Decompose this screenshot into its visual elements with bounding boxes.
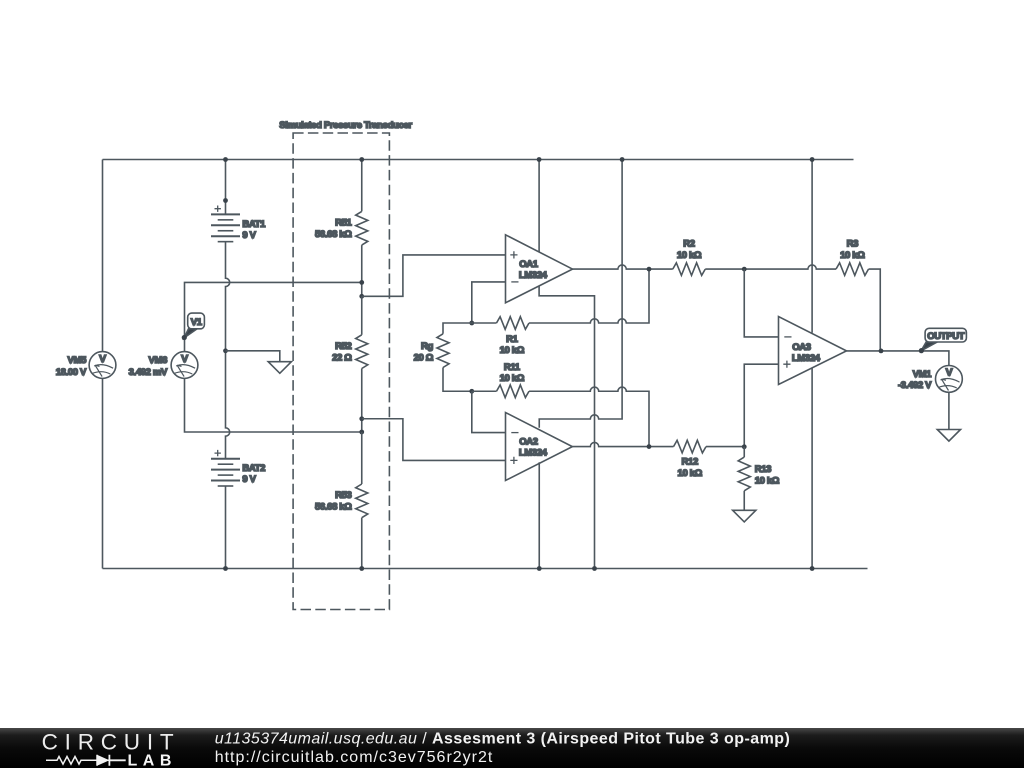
wire bottom rail [103, 568, 868, 570]
resistor R13 [738, 457, 750, 491]
node B lower dot (VM6 tap) [359, 430, 364, 435]
resistor R53 [356, 484, 368, 518]
svg-text:56.68 kΩ: 56.68 kΩ [315, 229, 352, 240]
wire OA1 V- supply to bottom rail (jog right) [539, 286, 594, 569]
wire R1 right to OA1 output node (hops) [529, 269, 649, 323]
svg-text:10 kΩ: 10 kΩ [678, 468, 703, 479]
node R12/R13 junction dot [742, 444, 747, 449]
svg-text:u1135374umail.usq.edu.au / Ass: u1135374umail.usq.edu.au / Assesment 3 (… [215, 731, 791, 748]
wire top rail to R51 [361, 160, 363, 212]
battery BAT1 [211, 214, 240, 241]
wire R13 to ground [743, 491, 745, 511]
wire OA1 inverting input to Rg top node [472, 282, 506, 323]
svg-text:LAB: LAB [128, 753, 177, 768]
svg-text:OA3: OA3 [792, 342, 811, 353]
wire node B to R53 [361, 432, 363, 484]
wire node A to OA1 noninverting input [362, 255, 506, 296]
node OA2 supply top rail dot [620, 157, 625, 162]
svg-text:V: V [946, 367, 953, 379]
node R1 feedback junction dot [647, 267, 652, 272]
svg-text:-3.492 V: -3.492 V [898, 380, 932, 391]
node Rg top junction dot [469, 321, 474, 326]
svg-text:R13: R13 [755, 464, 771, 475]
flag OUTPUT box [925, 328, 966, 342]
node OA2 V- bottom rail dot [537, 566, 542, 571]
dashed enclosure Simulated Pressure Transducer [293, 133, 389, 610]
wire ground tap [226, 351, 280, 362]
wire R1 left lead [472, 322, 497, 324]
wire R3 right down to output node [869, 269, 881, 351]
node OA3 supply top rail dot [810, 157, 815, 162]
resistor R52 [356, 335, 368, 369]
svg-text:R52: R52 [335, 341, 351, 352]
wire Rg bottom to lower node [443, 368, 472, 392]
wire OA3 V- supply to bottom rail [811, 368, 813, 569]
polarity + of BAT2 [215, 450, 221, 456]
wire node A to VM6 top [185, 282, 362, 351]
wire node A to R52 [361, 296, 363, 335]
wire OA3 inverting input from R2/R3 node [744, 269, 778, 337]
svg-text:LM324: LM324 [519, 447, 548, 458]
wire VM1 to ground [948, 392, 950, 429]
svg-text:10 kΩ: 10 kΩ [840, 250, 865, 261]
svg-text:http://circuitlab.com/c3ev756r: http://circuitlab.com/c3ev756r2yr2t [215, 749, 494, 766]
node OA3 inverting tap junction dot [742, 267, 747, 272]
op-amp OA2 body [506, 413, 573, 481]
node A upper dot (VM6 tap) [359, 280, 364, 285]
svg-text:BAT2: BAT2 [242, 463, 265, 474]
resistor R11 [497, 385, 530, 398]
flag OUTPUT pointer [921, 342, 937, 351]
battery BAT2 [211, 459, 240, 486]
op-amp OA2 minus input symbol [511, 432, 518, 434]
node OA3 V- bottom rail dot [810, 566, 815, 571]
node B upper dot (to OA2) [359, 416, 364, 421]
wire OA3 V+ supply from top rail [811, 160, 813, 333]
resistor R2 [673, 263, 706, 276]
wire node B to OA2 noninverting input [362, 419, 506, 461]
wire left branch (top rail down to VM5) [102, 160, 104, 352]
resistor R51 [356, 211, 368, 245]
resistor R1 [497, 317, 530, 330]
flag V1 box [188, 313, 205, 329]
wire R53 to bottom rail [361, 518, 363, 569]
svg-text:LM324: LM324 [792, 353, 821, 364]
wire VM5 bottom to bottom rail [102, 378, 104, 568]
footer bar background [0, 728, 1024, 768]
node OA1 supply top rail dot [537, 157, 542, 162]
wire OA2 output to R12 (hop over OA1 V-) [572, 442, 673, 446]
voltmeter VM6 [171, 352, 198, 379]
wire R2 to R3 (hop over OA3 supply) [705, 265, 836, 269]
svg-text:R53: R53 [335, 490, 351, 501]
svg-text:10 kΩ: 10 kΩ [500, 345, 525, 356]
wire top supply rail [103, 159, 854, 161]
svg-text:20 Ω: 20 Ω [414, 352, 434, 363]
op-amp OA3 plus input symbol [783, 361, 790, 368]
resistor R3 [836, 263, 869, 276]
node Rg bottom junction dot [469, 389, 474, 394]
node bridge bottom rail dot [359, 566, 364, 571]
svg-text:9 V: 9 V [242, 474, 256, 485]
svg-text:R3: R3 [847, 239, 859, 250]
svg-text:VM6: VM6 [149, 355, 168, 366]
op-amp OA1 body [506, 235, 573, 303]
wire OA1 V+ supply from top rail [538, 160, 540, 253]
svg-text:10 kΩ: 10 kΩ [500, 373, 525, 384]
wire OA2 V- supply to bottom rail [538, 462, 540, 568]
svg-text:VM1: VM1 [913, 369, 933, 380]
voltmeter VM1 [936, 366, 963, 393]
svg-text:OA2: OA2 [519, 436, 538, 447]
wire OA3 noninverting input from R12/R13 node [744, 364, 778, 447]
svg-text:18.00 V: 18.00 V [56, 367, 87, 378]
svg-text:R51: R51 [335, 218, 352, 229]
polarity + of BAT1 [215, 206, 221, 212]
svg-text:Rg: Rg [421, 341, 434, 352]
wire BAT1 to BAT2 with hops over VM6 wires [226, 242, 230, 459]
svg-text:10 kΩ: 10 kΩ [677, 250, 702, 261]
node battery top junction dot [223, 198, 228, 203]
svg-text:LM324: LM324 [519, 270, 548, 281]
ground symbol below VM1 [937, 430, 960, 442]
op-amp OA1 minus input symbol [511, 281, 518, 283]
svg-text:22 Ω: 22 Ω [332, 352, 352, 363]
wire VM6 bottom to node B [185, 378, 362, 432]
op-amp OA3 minus input symbol [784, 336, 791, 338]
svg-text:V: V [181, 353, 188, 365]
svg-text:V1: V1 [191, 317, 203, 328]
flag V1 pointer [184, 329, 197, 338]
wire R11 left lead [472, 390, 497, 392]
node ground tap junction dot [223, 348, 228, 353]
wire OA3 output to VM1 [847, 351, 949, 366]
ground symbol near battery midpoint [268, 362, 291, 374]
wire R51 to node A [361, 245, 363, 296]
wire R11 right to OA2 output node (hops) [529, 387, 649, 447]
node output junction dot [879, 349, 884, 354]
node A lower dot (to OA1) [359, 294, 364, 299]
svg-text:OUTPUT: OUTPUT [927, 331, 965, 342]
svg-text:10 kΩ: 10 kΩ [755, 475, 780, 486]
wire OA2 inverting input from Rg bottom node [472, 391, 506, 432]
svg-text:9 V: 9 V [242, 230, 256, 241]
wire top rail to BAT1 [225, 160, 227, 215]
svg-text:BAT1: BAT1 [242, 219, 266, 230]
logo resistor-diode glyph [46, 757, 97, 765]
node bridge top rail dot [359, 157, 364, 162]
wire Rg top node to Rg [443, 323, 472, 334]
wire R13 top lead [743, 447, 745, 457]
wire OA2 V+ supply (jog right to top rail) [539, 160, 622, 428]
svg-text:56.68 kΩ: 56.68 kΩ [315, 502, 352, 513]
node OA1 V- bottom rail dot [592, 566, 597, 571]
node R11 feedback junction dot [647, 444, 652, 449]
svg-text:R12: R12 [682, 457, 698, 468]
resistor Rg [437, 334, 449, 368]
wire BAT2 to bottom rail [225, 486, 227, 569]
wire OA1 output to R2 (hop over OA2 supply) [573, 265, 673, 269]
wire R12 to R13 node [706, 446, 744, 448]
node BAT branch top rail dot [223, 157, 228, 162]
voltmeter VM5 [89, 352, 116, 379]
svg-text:VM5: VM5 [68, 355, 88, 366]
svg-text:3.492 mV: 3.492 mV [129, 367, 168, 378]
svg-text:OA1: OA1 [519, 259, 539, 270]
ground symbol below R13 [733, 510, 756, 522]
svg-text:V: V [99, 353, 106, 365]
op-amp OA3 body [779, 317, 847, 385]
svg-text:CIRCUIT: CIRCUIT [42, 730, 181, 755]
svg-text:R1: R1 [506, 334, 519, 345]
op-amp OA2 plus input symbol [510, 457, 517, 464]
op-amp OA1 plus input symbol [510, 251, 517, 258]
node BAT branch bottom rail dot [223, 566, 228, 571]
resistor R12 [674, 440, 707, 453]
svg-text:R11: R11 [504, 362, 521, 373]
wire R52 to node B [361, 369, 363, 433]
svg-text:Simulated Pressure Transducer: Simulated Pressure Transducer [279, 120, 412, 131]
svg-text:R2: R2 [683, 239, 695, 250]
